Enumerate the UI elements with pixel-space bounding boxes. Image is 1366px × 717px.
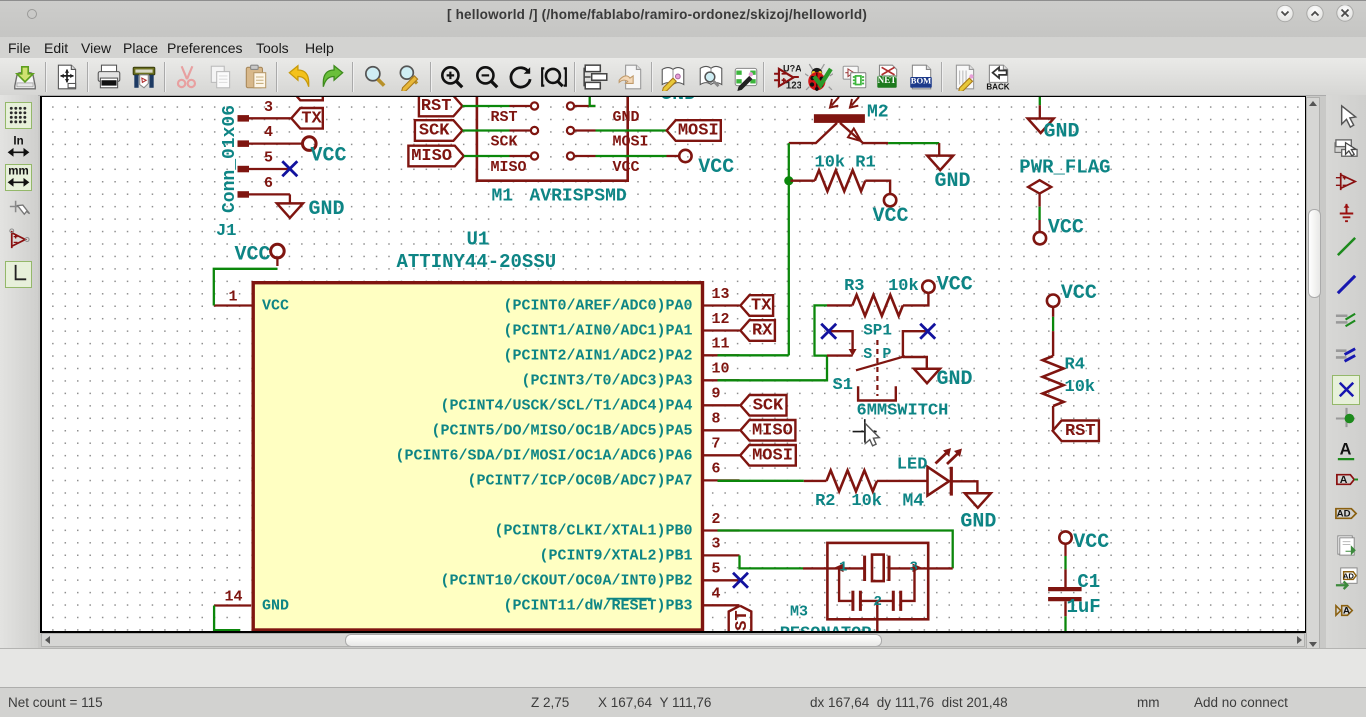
svg-text:RST: RST [420, 97, 451, 116]
svg-text:(PCINT7/ICP/OC0B/ADC7)PA7: (PCINT7/ICP/OC0B/ADC7)PA7 [467, 472, 692, 489]
no-connect right of S1 [920, 324, 935, 339]
resonator pin name 3 [912, 564, 922, 573]
ground symbol top right [1038, 105, 1040, 118]
svg-text:6: 6 [263, 175, 272, 192]
svg-text:(PCINT4/USCK/SCL/T1/ADC4)PA4: (PCINT4/USCK/SCL/T1/ADC4)PA4 [440, 397, 692, 414]
svg-text:TX: TX [301, 109, 322, 128]
svg-text:11: 11 [711, 336, 729, 353]
ground symbol right of M2 [888, 142, 939, 144]
svg-text:7: 7 [711, 436, 720, 453]
resonator internal caps [839, 568, 853, 601]
svg-text:PWR_FLAG: PWR_FLAG [1019, 157, 1110, 179]
IC U1 body [253, 283, 702, 630]
svg-text:VCC: VCC [262, 297, 289, 314]
resonator crystal plates [863, 556, 866, 581]
top toolbar [0, 58, 1366, 96]
svg-text:M3: M3 [790, 604, 808, 621]
svg-text:A: A [1343, 605, 1350, 616]
vertical scrollbar [1306, 97, 1320, 650]
window title bar [0, 0, 1366, 38]
svg-text:123: 123 [786, 81, 801, 91]
svg-text:In: In [13, 135, 23, 147]
pin GND of M1 (right) [566, 102, 573, 109]
global label RST at M1 [418, 96, 462, 117]
R1 left lead [790, 179, 814, 181]
svg-text:(PCINT11/dW/RESET)PB3: (PCINT11/dW/RESET)PB3 [503, 597, 692, 614]
svg-text:10k: 10k [851, 492, 882, 511]
svg-text:9: 9 [711, 386, 720, 403]
switch S1 S pin [827, 354, 853, 356]
wire pin10 to switch and R3 [717, 305, 827, 380]
svg-text:BACK: BACK [986, 82, 1009, 91]
pin 4 of J1 [249, 142, 303, 144]
svg-text:VCC: VCC [872, 205, 908, 228]
wire MISO label to M1 [463, 155, 509, 157]
svg-text:TX: TX [751, 297, 772, 316]
ground symbol at LED [964, 493, 990, 508]
svg-text:14: 14 [224, 589, 242, 606]
svg-text:6: 6 [711, 461, 720, 478]
svg-text:U?A: U?A [783, 63, 801, 73]
LED M4 cathode bar [949, 467, 952, 496]
wire M1 MOSI to label [595, 129, 666, 131]
svg-text:RX: RX [751, 322, 772, 341]
svg-text:8: 8 [711, 411, 720, 428]
svg-text:BOM: BOM [910, 75, 931, 85]
wire pin6 to R2 [717, 480, 803, 482]
pin MOSI of M1 (right) [566, 127, 573, 134]
no-connect U1 pin 5 [733, 573, 748, 588]
global label RST at U1 pin4 (rotated, clipped) [728, 606, 751, 640]
svg-text:(PCINT1/AIN0/ADC1)PA1: (PCINT1/AIN0/ADC1)PA1 [503, 323, 692, 340]
svg-text:10k R1: 10k R1 [814, 154, 875, 173]
power port VCC at R3 [922, 281, 934, 293]
svg-text:S: S [863, 346, 872, 363]
partial global label RX above (clipped) [291, 80, 323, 101]
LED emission arrows [935, 452, 947, 464]
no-connect on J1 pin 5 [282, 161, 297, 176]
wire below C1 [1064, 616, 1066, 631]
LED M4 triangle [927, 467, 949, 496]
U1 RESET overline [606, 598, 651, 600]
svg-text:Conn_01x06: Conn_01x06 [220, 105, 240, 213]
wire VCC to R4 [1051, 317, 1053, 331]
LED to GND lead [951, 481, 977, 493]
svg-text:VCC: VCC [234, 244, 270, 267]
R1 right lead to VCC [865, 181, 890, 194]
U1 pin 7 stub (right) [704, 454, 740, 456]
wire PWR_FLAG to VCC [1038, 207, 1040, 220]
global label TX on J1 [291, 108, 323, 129]
capacitor C1 [1064, 569, 1066, 587]
global label MOSI at U1 pin7 [740, 445, 796, 466]
wire SCK label to M1 [462, 129, 509, 131]
switch S1 lever [856, 356, 905, 370]
U1 pin 2 stub (right) [704, 529, 740, 531]
svg-text:VCC: VCC [1047, 217, 1083, 240]
resonator pin name 1 [834, 564, 844, 573]
svg-text:3: 3 [711, 536, 720, 553]
svg-text:MISO: MISO [490, 159, 526, 176]
svg-text:RESONATOR: RESONATOR [779, 625, 872, 632]
svg-text:SCK: SCK [490, 134, 517, 151]
svg-text:(PCINT9/XTAL2)PB1: (PCINT9/XTAL2)PB1 [539, 547, 692, 564]
svg-text:VCC: VCC [1060, 282, 1096, 305]
power port VCC at M1 [666, 155, 679, 157]
R3 left lead [827, 304, 852, 306]
resistor R4 [1042, 356, 1063, 406]
svg-text:MISO: MISO [411, 147, 452, 166]
svg-text:GND: GND [612, 109, 639, 126]
svg-text:AD: AD [1343, 571, 1355, 580]
menu bar [0, 37, 1366, 58]
svg-text:(PCINT5/DO/MISO/OC1B/ADC5)PA5: (PCINT5/DO/MISO/OC1B/ADC5)PA5 [431, 422, 692, 439]
svg-text:RST: RST [1064, 422, 1095, 441]
power port VCC at R1 [883, 194, 895, 206]
svg-text:R3: R3 [844, 277, 864, 296]
global label TX at U1 pin13 [740, 295, 773, 316]
R4 bottom lead [1051, 406, 1053, 431]
wire pin3 to resonator pin1 [739, 555, 803, 568]
phototransistor M2 collector [788, 123, 836, 143]
wire VCC to C1 [1064, 556, 1066, 569]
wire to top GND [1038, 95, 1040, 105]
wire pin11 up to M2 junction [717, 354, 788, 356]
svg-text:A: A [1340, 441, 1352, 459]
U1 pin 6 stub (right) [704, 479, 740, 481]
wire RST label to M1 [462, 105, 509, 107]
no-connect left of S1 [821, 324, 836, 339]
svg-text:AD: AD [1337, 508, 1351, 519]
wire U1 pin14 to GND rail [214, 606, 240, 631]
pin VCC of M1 (right) [566, 152, 573, 159]
svg-text:RST: RST [490, 109, 517, 126]
svg-text:SCK: SCK [418, 122, 449, 141]
svg-text:(PCINT8/CLKI/XTAL1)PB0: (PCINT8/CLKI/XTAL1)PB0 [494, 523, 692, 540]
svg-text:4: 4 [263, 124, 272, 141]
svg-text:2: 2 [711, 511, 720, 528]
svg-text:5: 5 [711, 561, 720, 578]
pin 6 of J1 [249, 193, 290, 195]
svg-text:RX: RX [301, 97, 322, 100]
U1 pin 11 stub (right) [704, 354, 740, 356]
ground symbol at J1 pin 6 [288, 194, 290, 203]
svg-text:10k: 10k [1064, 378, 1095, 397]
resonator M3 pin1 lead [803, 567, 865, 569]
svg-text:GND: GND [262, 597, 289, 614]
svg-text:P: P [882, 346, 891, 363]
svg-text:1uF: 1uF [1066, 596, 1100, 618]
U1 pin 13 stub (right) [704, 304, 740, 306]
global label SCK at U1 pin9 [740, 395, 786, 416]
power port VCC above R4 [1046, 295, 1058, 307]
R4 upper lead [1051, 331, 1053, 356]
wire M2 collector down to R1 [787, 143, 789, 355]
ground symbol at S1 [914, 369, 940, 384]
svg-text:MOSI: MOSI [677, 122, 718, 141]
U1 pin 14 stub [214, 604, 251, 606]
svg-text:R4: R4 [1064, 356, 1084, 375]
resistor R1 [814, 170, 865, 191]
switch S1 actuator dashed line [876, 340, 878, 396]
svg-text:GND: GND [660, 97, 696, 106]
svg-text:S1: S1 [832, 376, 852, 395]
power port VCC below PWR_FLAG [1038, 220, 1040, 232]
global label MOSI at M1 [666, 120, 720, 141]
svg-text:mm: mm [8, 165, 28, 177]
R3 right lead to VCC [902, 293, 928, 305]
svg-text:GND: GND [308, 198, 344, 221]
svg-text:5: 5 [263, 150, 272, 167]
svg-text:VCC: VCC [310, 145, 346, 168]
power port VCC above C1 [1059, 531, 1071, 543]
U1 pin 8 stub (right) [704, 429, 740, 431]
connector J1 body pin pads [237, 115, 249, 122]
left toolbar [0, 95, 38, 690]
svg-text:(PCINT10/CKOUT/OC0A/INT0)PB2: (PCINT10/CKOUT/OC0A/INT0)PB2 [440, 572, 692, 589]
svg-text:AVRISPSMD: AVRISPSMD [529, 187, 626, 207]
switch S1 bracket [858, 386, 896, 400]
svg-text:2: 2 [873, 594, 881, 610]
svg-text:R2: R2 [815, 492, 835, 511]
phototransistor M2 emitter with arrow [840, 123, 888, 143]
pin 3 of J1 [249, 117, 291, 119]
resistor R2 [826, 470, 877, 491]
svg-text:GND: GND [960, 511, 996, 534]
U1 pin 9 stub (right) [704, 404, 740, 406]
resistor R3 [852, 295, 903, 316]
svg-text:12: 12 [711, 311, 729, 328]
svg-text:M4: M4 [902, 491, 924, 511]
svg-text:MOSI: MOSI [752, 446, 793, 465]
svg-text:VCC: VCC [612, 159, 639, 176]
svg-text:13: 13 [711, 286, 729, 303]
svg-text:10: 10 [711, 361, 729, 378]
svg-text:VCC: VCC [1073, 531, 1109, 554]
svg-text:MISO: MISO [751, 421, 792, 440]
svg-text:10k: 10k [888, 277, 919, 296]
pin RST of M1 (left) [530, 102, 537, 109]
switch S1 left contact [828, 331, 852, 350]
svg-text:(PCINT6/SDA/DI/MOSI/OC1A/ADC6): (PCINT6/SDA/DI/MOSI/OC1A/ADC6)PA6 [395, 447, 692, 464]
U1 pin 12 stub (right) [704, 329, 740, 331]
global label RST at R4 [1052, 421, 1098, 442]
svg-text:J1: J1 [216, 222, 236, 241]
svg-text:U1: U1 [466, 229, 489, 251]
pin SCK of M1 (left) [530, 127, 537, 134]
svg-text:(PCINT2/AIN1/ADC2)PA2: (PCINT2/AIN1/ADC2)PA2 [503, 347, 692, 364]
pin MISO of M1 (left) [530, 152, 537, 159]
svg-text:M2: M2 [867, 103, 889, 123]
svg-text:(PCINT3/T0/ADC3)PA3: (PCINT3/T0/ADC3)PA3 [521, 372, 692, 389]
svg-text:ATTINY44-20SSU: ATTINY44-20SSU [396, 251, 556, 273]
M2 light arrows (clipped) [830, 97, 839, 108]
resonator M3 pin3 lead [889, 567, 953, 569]
svg-text:4: 4 [711, 586, 720, 603]
resonator pin 2 down [876, 601, 878, 631]
svg-text:SP1: SP1 [863, 321, 892, 339]
svg-text:VCC: VCC [936, 274, 972, 297]
message panel [0, 648, 1366, 688]
svg-text:LED: LED [896, 455, 927, 474]
pin 5 of J1 [249, 168, 290, 170]
horizontal scrollbar [41, 633, 1305, 647]
svg-text:6MMSWITCH: 6MMSWITCH [856, 402, 948, 421]
switch S1 P pin to GND [902, 357, 926, 369]
U1 pin 4 stub (right) [704, 604, 740, 606]
svg-text:SCK: SCK [752, 396, 783, 415]
right toolbar [1326, 95, 1366, 690]
mouse crosshair [852, 419, 876, 442]
svg-text:GND: GND [936, 368, 972, 391]
U1 pin 1 stub [213, 304, 252, 306]
R4 top lead [1051, 307, 1053, 317]
global label SCK at M1 [414, 120, 462, 141]
power port VCC at J1 pin 4 [302, 137, 316, 151]
PWR_FLAG symbol [1028, 180, 1051, 193]
status bar [0, 687, 1366, 717]
header M1 body outline [476, 90, 627, 181]
svg-text:GND: GND [1043, 121, 1079, 144]
svg-text:VCC: VCC [698, 156, 734, 179]
svg-text:1: 1 [228, 289, 237, 306]
canvas [40, 96, 1306, 633]
wire M1 GND up [589, 95, 595, 106]
svg-text:RST: RST [733, 610, 752, 631]
global label RX at U1 pin12 [740, 320, 775, 341]
resonator M3 box [827, 543, 928, 619]
U1 pin 3 stub (right) [704, 554, 740, 556]
svg-text:GND: GND [934, 170, 970, 193]
switch S1 right contact [902, 331, 927, 357]
phototransistor M2 base bar [813, 114, 864, 123]
wire VCC to U1 pin1 [213, 269, 277, 306]
svg-text:NET: NET [878, 75, 897, 85]
U1 pin 5 stub (right) [704, 579, 740, 581]
junction at R1/M2 [784, 176, 793, 185]
svg-text:M1: M1 [491, 187, 513, 207]
R2 left lead [803, 480, 826, 482]
svg-text:A: A [1340, 474, 1348, 486]
mouse pointer [865, 424, 879, 446]
svg-text:(PCINT0/AREF/ADC0)PA0: (PCINT0/AREF/ADC0)PA0 [503, 298, 692, 315]
global label MISO at M1 [408, 146, 463, 167]
svg-text:MOSI: MOSI [612, 134, 648, 151]
power port VCC feeding U1 pin 1 [270, 244, 284, 258]
svg-text:C1: C1 [1077, 571, 1100, 593]
U1 pin 10 stub (right) [704, 379, 740, 381]
wire M1 VCC [595, 155, 666, 157]
R2 right lead [877, 480, 928, 482]
svg-text:3: 3 [263, 99, 272, 116]
global label MISO at U1 pin8 [740, 420, 795, 441]
wire pin2 to resonator pin3 [717, 531, 952, 569]
